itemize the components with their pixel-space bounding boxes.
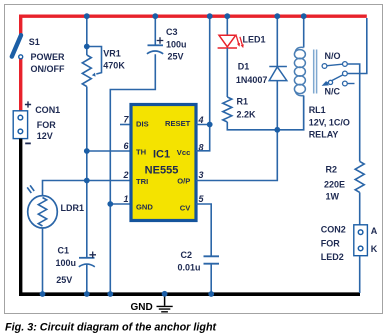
junction C2 ground rail [208,291,214,297]
wire D1 anode down, pin3 O/P riser [196,81,277,181]
IC U1: IC1 NE555 timer [131,105,196,221]
svg-text:DIS: DIS [136,120,149,129]
svg-text:S1: S1 [29,37,40,47]
LED1 [218,18,244,48]
wire C3 to GND vertical (crosses pin6/pin2) [110,54,155,294]
svg-text:IC1: IC1 [153,149,170,161]
wire pin4 RESET and pin8 Vcc to +12V [196,18,210,151]
capacitor C1 [79,252,96,267]
svg-text:R1: R1 [237,97,249,107]
svg-text:RELAY: RELAY [309,130,339,140]
wire +12V to common pole [348,18,367,74]
label CON1 plus [25,101,31,107]
junction pin1 riser ground rail [107,291,113,297]
svg-text:3: 3 [199,170,204,180]
junction VR1 top rail [84,13,90,19]
svg-text:220E: 220E [324,179,345,189]
junction C1 ground rail [84,291,90,297]
wire +12V red rail [21,16,367,35]
svg-text:TRI: TRI [136,177,148,186]
svg-text:ON/OFF: ON/OFF [31,64,65,74]
svg-text:R2: R2 [326,165,338,175]
ground symbol [157,294,173,312]
svg-text:Vcc: Vcc [177,148,191,157]
resistor R2 [355,161,364,192]
svg-text:TH: TH [136,148,146,157]
junction pin6 TH node [84,148,90,154]
resistor R1 [223,48,232,122]
relay RL1 coil [294,18,316,130]
junction D1 top rail [274,13,280,19]
wire S1 to CON1 red [19,59,22,112]
wire pin1 GND [110,203,131,205]
wire CON2 to rail [359,256,361,293]
svg-text:12V, 1C/O: 12V, 1C/O [309,118,350,128]
svg-text:GND: GND [136,202,153,211]
label CON1 minus [25,142,31,144]
svg-text:2: 2 [122,170,128,180]
svg-text:NE555: NE555 [145,165,179,177]
svg-text:4: 4 [198,115,204,125]
svg-text:RL1: RL1 [309,105,326,115]
junction LDR1 ground rail [40,291,46,297]
svg-text:K: K [371,244,378,254]
svg-text:LED2: LED2 [321,252,344,262]
svg-text:VR1: VR1 [103,49,121,59]
svg-text:FOR: FOR [321,238,340,248]
svg-text:C1: C1 [58,246,70,256]
svg-text:RESET: RESET [165,119,191,128]
potentiometer VR1 [82,18,101,87]
svg-text:470K: 470K [103,60,125,70]
svg-text:100u: 100u [56,258,77,268]
svg-text:Fig. 3: Circuit diagram of the: Fig. 3: Circuit diagram of the anchor li… [5,322,217,334]
diode D1 [269,18,287,81]
svg-text:D1: D1 [238,61,250,71]
junction pin2 TRI / LDR node [84,178,90,184]
svg-text:CON2: CON2 [321,225,346,235]
junction VR1 wiper tap [84,44,90,50]
svg-text:C2: C2 [181,250,193,260]
wire pin7 DIS stub [120,124,131,126]
svg-text:25V: 25V [56,275,72,285]
junction pin1 GND node [107,201,113,207]
wire R2 to CON2 [359,192,361,225]
svg-text:FOR: FOR [37,120,56,130]
svg-text:12V: 12V [37,131,53,141]
svg-text:CV: CV [180,203,191,212]
svg-text:CON1: CON1 [35,105,60,115]
connector CON1 [13,111,27,139]
svg-text:LDR1: LDR1 [61,203,85,213]
capacitor C2 [204,256,220,294]
relay contacts [322,62,355,86]
wire node to relay coil [277,96,303,130]
svg-text:A: A [371,226,378,236]
wire ground rail [19,292,360,296]
capacitor C3 [147,18,163,54]
svg-text:100u: 100u [166,39,187,49]
svg-text:1N4007: 1N4007 [236,75,268,85]
junction GND symbol ground rail [162,291,168,297]
wire pin5 CV to C2 [196,204,211,256]
svg-text:N/C: N/C [325,87,341,97]
wire VR1 column down through pin6/pin2 nodes to C1 [86,87,88,295]
wire CON1 to ground rail (black) [19,139,22,295]
svg-text:2.2K: 2.2K [237,110,257,120]
svg-text:POWER: POWER [31,52,66,62]
junction pin4 riser top rail [207,13,213,19]
junction LED1 top rail [224,13,230,19]
svg-text:0.01u: 0.01u [178,262,201,272]
switch S1 [12,35,23,59]
svg-text:GND: GND [131,302,153,313]
wire R1 bottom to node [227,122,277,130]
wire pin6 TH [87,150,131,152]
LDR1 [27,185,57,228]
svg-text:1: 1 [123,194,128,204]
junction R1/D1/coil/O-P node [274,127,280,133]
junction pin4 RESET node [207,122,213,128]
svg-text:25V: 25V [168,52,184,62]
junction C3 top rail [152,13,158,19]
junction relay coil top rail [301,13,307,19]
svg-text:N/O: N/O [325,51,341,61]
connector CON2 [354,225,368,256]
svg-text:LED1: LED1 [243,34,266,44]
wire LDR top to pin2 TRI [43,181,132,197]
relay core [314,50,317,94]
wire LDR bottom to rail [42,228,44,294]
svg-text:1W: 1W [326,192,340,202]
wire N/O contact to R2 [348,64,360,161]
svg-text:C3: C3 [166,27,178,37]
svg-text:O/P: O/P [177,177,190,186]
